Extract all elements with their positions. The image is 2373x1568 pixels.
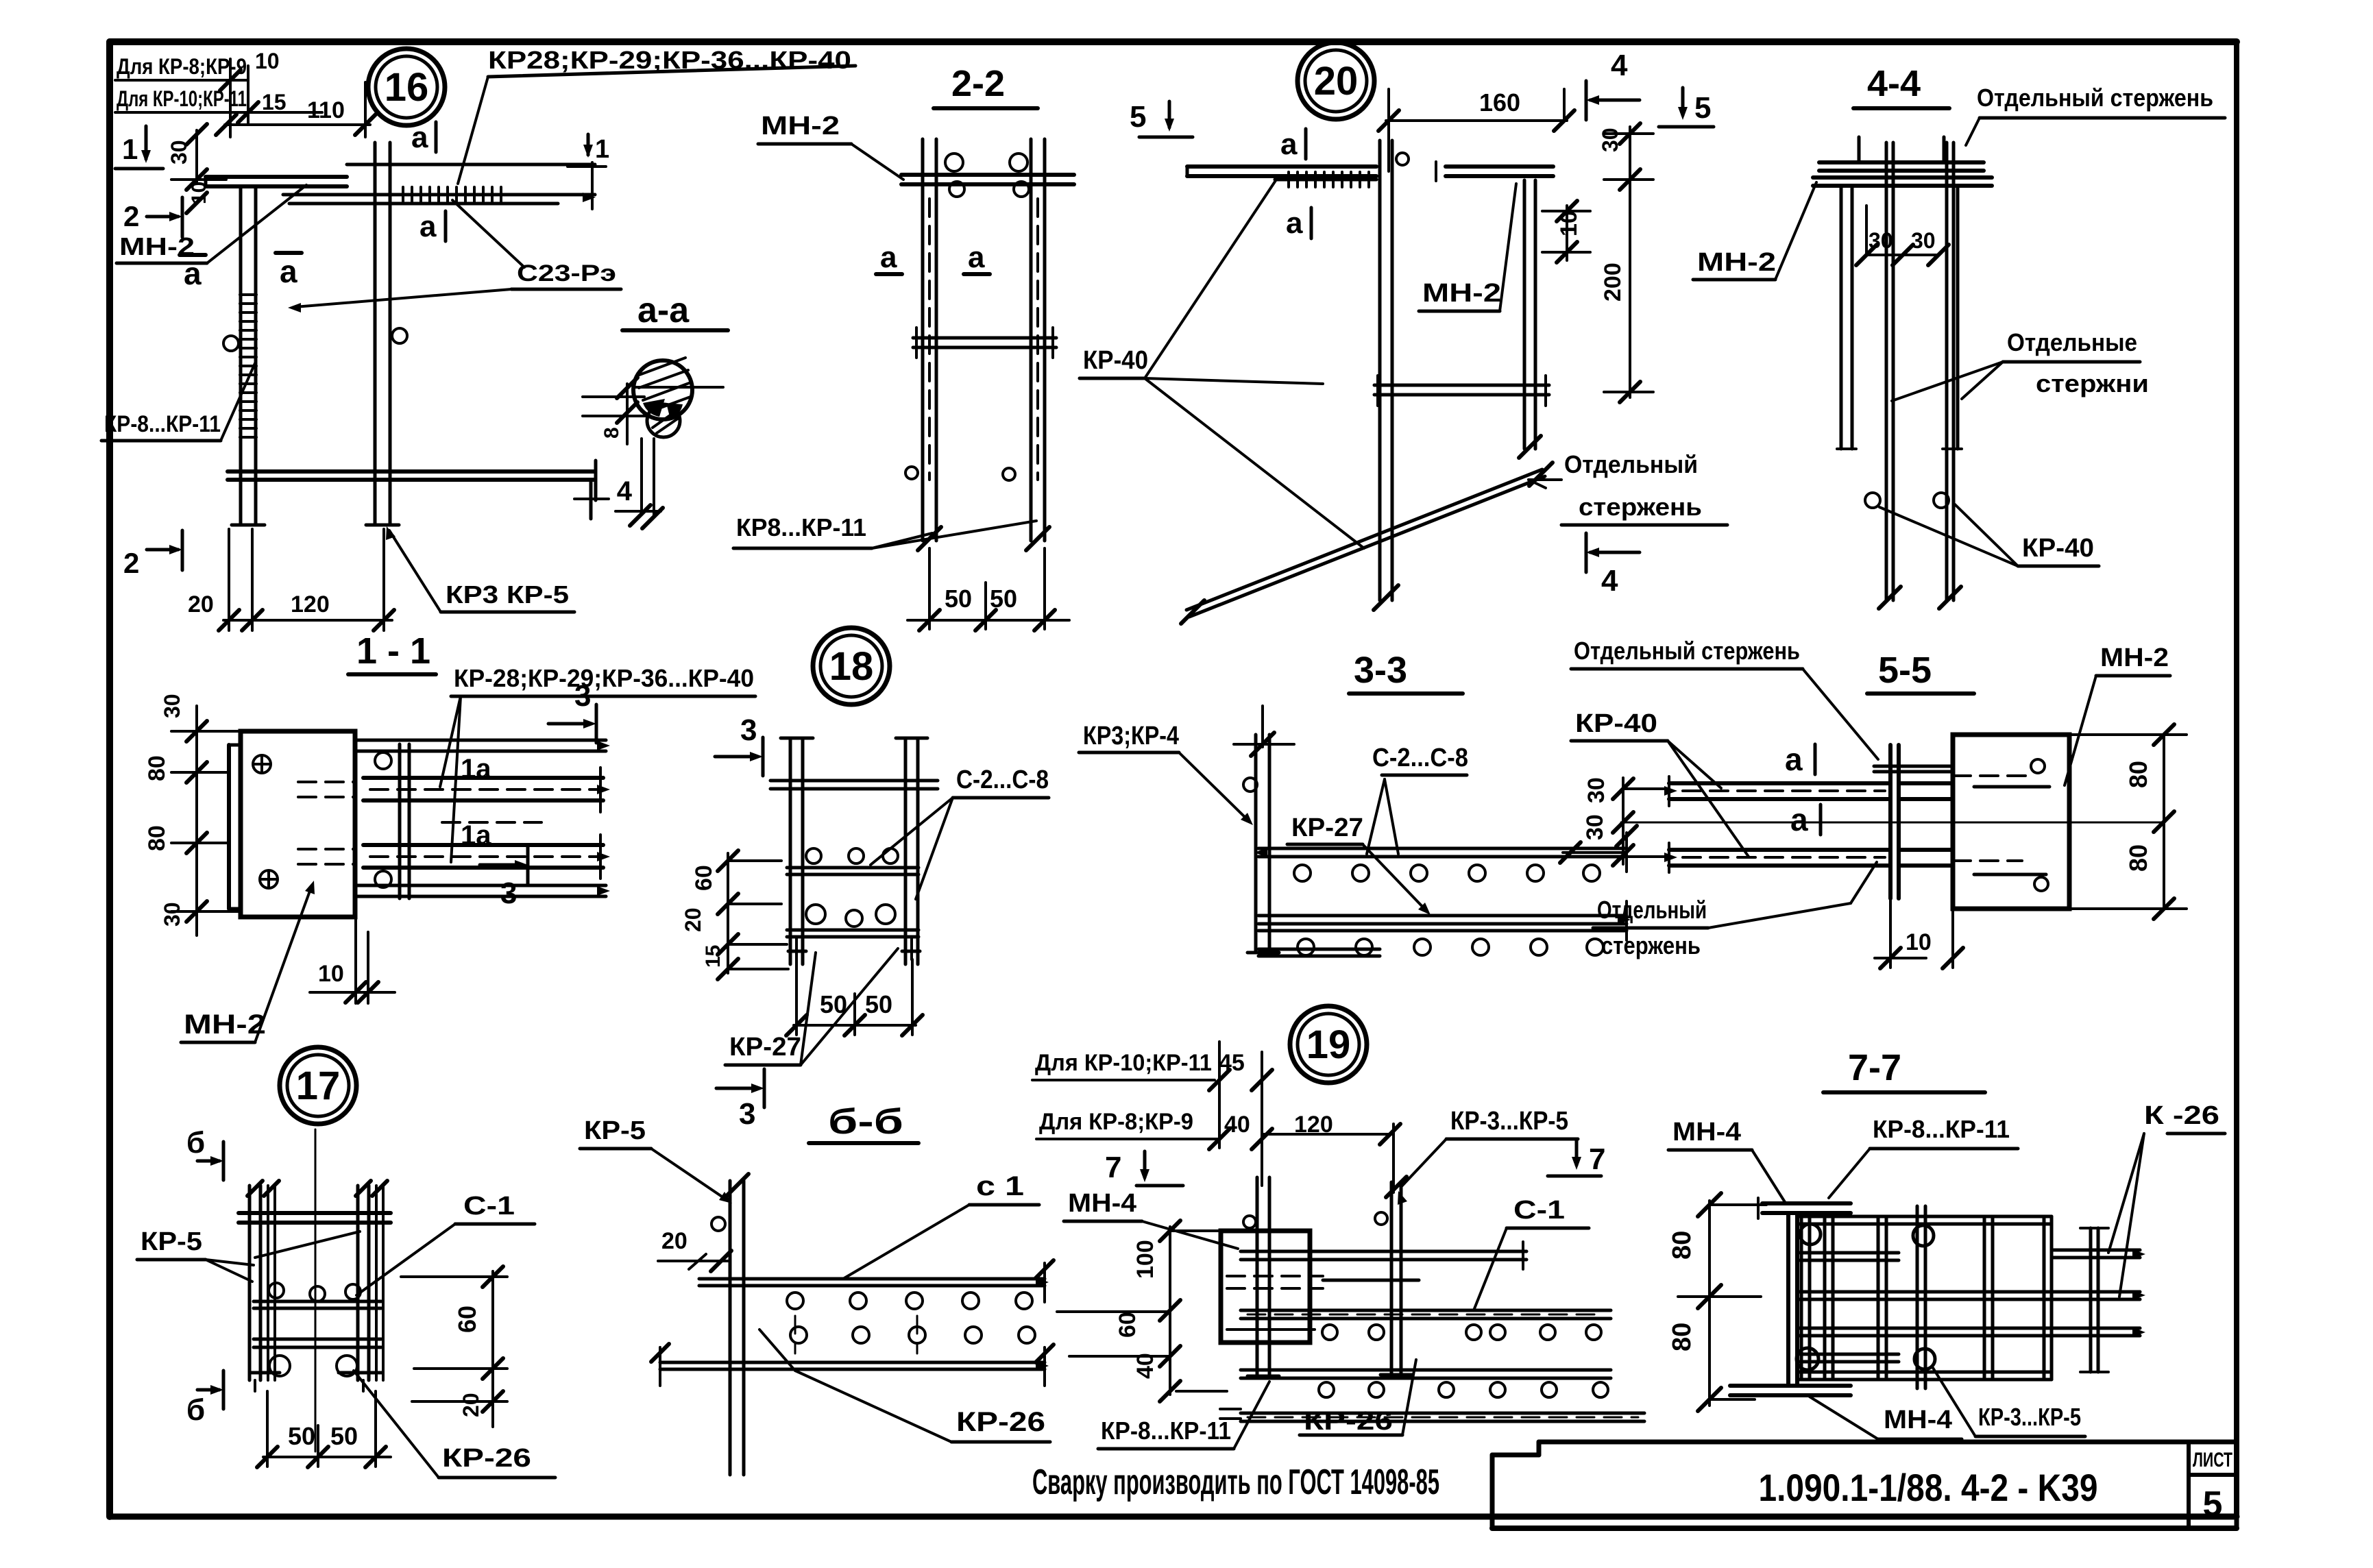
dim 30 vert — [167, 124, 207, 190]
section mark 1 right end — [568, 134, 609, 167]
svg-text:200: 200 — [1600, 262, 1626, 302]
d17 circles mid — [269, 1283, 361, 1301]
d11 dim 10 — [310, 914, 395, 1003]
d22 middle bar — [905, 328, 1056, 480]
section 2-2 title — [934, 63, 1038, 108]
d55 top stub — [1874, 766, 1953, 772]
svg-text:80: 80 — [144, 825, 170, 851]
svg-text:МН-2: МН-2 — [761, 112, 840, 140]
label dlya KR-8 KR-9 — [115, 49, 280, 80]
svg-text:30: 30 — [1911, 228, 1936, 253]
svg-text:45: 45 — [1219, 1050, 1245, 1076]
d20 right column — [1519, 180, 1541, 458]
label dlya KR-10 KR-11 — [115, 86, 287, 114]
svg-text:Для КР-8;КР-9: Для КР-8;КР-9 — [117, 54, 247, 79]
d11 plus marks — [253, 755, 278, 888]
label KR-5 d17 — [137, 1227, 254, 1282]
label KR-3 KR-5 — [386, 526, 574, 612]
dim 160 — [1378, 88, 1574, 171]
d66 left column — [711, 1174, 749, 1475]
d18 top bar — [770, 781, 938, 789]
label KR-27 d18 — [725, 948, 898, 1065]
svg-text:С-2...С-8: С-2...С-8 — [1372, 744, 1468, 772]
svg-text:20: 20 — [681, 907, 705, 932]
svg-text:Отдельные: Отдельные — [2007, 328, 2137, 356]
label C23-Re — [288, 200, 621, 313]
d77 right stirrup — [2080, 1228, 2108, 1372]
d77 dims 80 80 — [1668, 1193, 1766, 1411]
d17 dims right — [401, 1266, 507, 1427]
svg-text:30: 30 — [160, 902, 184, 927]
d66 dim 20 — [658, 1228, 731, 1271]
svg-text:5: 5 — [1694, 91, 1711, 125]
d33 mid row circles — [1298, 939, 1603, 955]
svg-text:3: 3 — [574, 679, 591, 713]
d19 plate MN-4 — [1221, 1231, 1310, 1343]
detail16 bottom bar — [228, 461, 596, 500]
d18 left column — [781, 738, 813, 964]
label KR-40 d20 — [1080, 180, 1364, 548]
section mark 4 bottom — [1586, 533, 1640, 598]
svg-text:1a: 1a — [461, 820, 491, 850]
svg-text:16: 16 — [385, 65, 429, 110]
d66 mid circles — [790, 1316, 1035, 1353]
svg-text:17: 17 — [296, 1064, 341, 1108]
svg-text:б: б — [186, 1393, 205, 1427]
d20 mid bar — [1374, 376, 1549, 406]
d55 bar row2 — [1664, 843, 1953, 872]
svg-text:60: 60 — [453, 1306, 481, 1333]
d20 diagonal rod — [1181, 463, 1553, 624]
svg-text:20: 20 — [661, 1228, 687, 1254]
svg-text:КР-3...КР-5: КР-3...КР-5 — [1450, 1107, 1568, 1136]
label KR-27 d33 — [1287, 813, 1431, 915]
label a-bar left — [180, 255, 206, 291]
d55 bar row1 — [1664, 776, 1953, 806]
d44 top plates — [1813, 162, 1992, 186]
d55 dashed anchors — [1953, 759, 2049, 891]
section mark 3 left d18 — [715, 713, 763, 776]
svg-text:КР-26: КР-26 — [442, 1444, 531, 1473]
section mark 4 left top — [1586, 49, 1640, 120]
svg-text:30: 30 — [160, 694, 184, 718]
svg-text:a: a — [419, 210, 437, 243]
label KR-28 group 1-1 — [440, 664, 755, 862]
section mark 2 bottom — [123, 530, 182, 579]
svg-text:60: 60 — [1115, 1312, 1141, 1338]
label MN-2 d20 right — [1693, 182, 1816, 280]
svg-text:100: 100 — [1132, 1240, 1158, 1279]
label C-1 d17 — [356, 1192, 535, 1295]
d19 mid bar — [1241, 1310, 1611, 1319]
label C-2 C-8 d18 — [871, 765, 1049, 899]
svg-text:С23-Рэ: С23-Рэ — [517, 260, 616, 286]
svg-text:КР-40: КР-40 — [1575, 709, 1657, 738]
d55 big plate — [1953, 735, 2069, 909]
svg-text:Отдельный: Отдельный — [1564, 450, 1698, 478]
detail16 bottom dims — [188, 529, 394, 630]
svg-text:Отдельный: Отдельный — [1597, 896, 1707, 924]
svg-text:4: 4 — [1601, 564, 1618, 598]
section mark b top — [186, 1126, 223, 1180]
svg-text:С-1: С-1 — [463, 1192, 515, 1221]
svg-text:3: 3 — [739, 1097, 755, 1131]
label C-2 C-8 d33 — [1367, 744, 1468, 854]
label C-1 d19 — [1474, 1196, 1589, 1310]
svg-text:19: 19 — [1306, 1022, 1351, 1067]
d18 bottom bar — [787, 930, 918, 937]
svg-text:160: 160 — [1479, 88, 1520, 117]
svg-text:КР-3...КР-5: КР-3...КР-5 — [1978, 1403, 2081, 1431]
label KR28 KR-29 KR-36 KR-40 — [458, 46, 855, 184]
svg-text:7-7: 7-7 — [1848, 1047, 1901, 1088]
label K-26 d77 — [2108, 1101, 2225, 1297]
svg-text:С-1: С-1 — [1513, 1196, 1565, 1225]
d18 feet — [788, 937, 920, 959]
label KR-26 d17 — [354, 1371, 555, 1478]
title block doc number — [1759, 1466, 2098, 1509]
svg-text:20: 20 — [188, 591, 214, 617]
svg-text:a: a — [968, 241, 985, 274]
section a-a title — [622, 291, 728, 330]
svg-text:4: 4 — [1611, 49, 1628, 82]
detail16 top plate — [206, 177, 347, 186]
section 7-7 title — [1823, 1047, 1985, 1092]
svg-text:КР-27: КР-27 — [729, 1033, 801, 1062]
svg-text:80: 80 — [1668, 1231, 1696, 1260]
svg-text:110: 110 — [307, 97, 345, 123]
svg-text:15: 15 — [262, 90, 287, 114]
label MN-2 d16 — [117, 185, 306, 263]
d19 right column — [1375, 1177, 1412, 1375]
label MN-2 d11 — [181, 881, 315, 1042]
d33 bottom chord — [1254, 948, 1380, 957]
d11 thick bar 2 — [363, 835, 610, 879]
svg-text:a: a — [1790, 802, 1808, 837]
section mark 3 right d11 — [548, 679, 596, 743]
svg-text:КР-28;КР-29;КР-36...КР-40: КР-28;КР-29;КР-36...КР-40 — [454, 664, 754, 692]
label KR-8 KR-11 d77 — [1829, 1115, 2018, 1198]
section 6-6 title — [809, 1102, 918, 1143]
svg-text:МН-2: МН-2 — [2100, 644, 2169, 672]
svg-text:МН-4: МН-4 — [1672, 1118, 1741, 1147]
label otdelny sterzhen 44 top — [1966, 84, 2225, 145]
label MN-2 d55 — [2065, 644, 2170, 785]
label C1 d66 — [843, 1171, 1039, 1279]
label KR-26 d66 — [759, 1330, 1050, 1442]
svg-text:стержни: стержни — [2036, 369, 2149, 397]
svg-text:Для КР-10;КР-11: Для КР-10;КР-11 — [117, 86, 247, 111]
svg-text:60: 60 — [691, 865, 717, 891]
dim 10 d20 — [1542, 201, 1590, 262]
svg-text:10: 10 — [1906, 929, 1932, 955]
d11 dims left — [144, 694, 241, 935]
svg-text:50: 50 — [945, 585, 972, 613]
svg-text:18: 18 — [829, 644, 874, 689]
d55 dim 10 — [1875, 898, 1963, 968]
svg-text:40: 40 — [1224, 1112, 1250, 1138]
label MN-2 d20 mid — [1419, 184, 1516, 311]
svg-text:50: 50 — [288, 1422, 315, 1450]
svg-text:a: a — [880, 241, 897, 274]
svg-text:МН-2: МН-2 — [184, 1009, 266, 1040]
d18 lower circles — [806, 905, 895, 927]
section 5-5 title — [1867, 650, 1974, 694]
d17 feet — [252, 1373, 382, 1391]
d18 dims left — [681, 850, 788, 979]
svg-text:30: 30 — [1582, 814, 1608, 840]
d33 left column — [1234, 706, 1294, 953]
d11 stirrup — [375, 744, 409, 898]
svg-text:10: 10 — [255, 49, 280, 73]
svg-text:80: 80 — [2124, 761, 2152, 788]
label a| lower — [419, 210, 446, 243]
svg-text:б-б: б-б — [828, 1102, 903, 1142]
svg-text:3: 3 — [500, 877, 517, 910]
d77 circles — [1797, 1224, 1935, 1370]
section mark 7 down right — [1548, 1139, 1605, 1176]
d19 bot circles — [1319, 1382, 1608, 1397]
section mark 7 down — [1105, 1151, 1183, 1186]
svg-text:КР-8...КР-11: КР-8...КР-11 — [1873, 1115, 2010, 1143]
d66 top circles — [787, 1293, 1032, 1309]
svg-text:КР-8...КР-11: КР-8...КР-11 — [104, 411, 221, 437]
d44 inner rod right — [1939, 143, 1961, 609]
svg-text:50: 50 — [865, 990, 892, 1018]
d22 labels a a — [876, 241, 990, 274]
d55 labels a| — [1785, 742, 1821, 837]
d77 bottom plate — [1730, 1386, 1851, 1395]
label KR8 KR-11 d22 — [733, 513, 1036, 548]
svg-text:1 - 1: 1 - 1 — [356, 630, 430, 672]
d19 left column — [1243, 1177, 1279, 1376]
svg-text:10: 10 — [318, 961, 344, 987]
d17 left columns — [247, 1181, 279, 1380]
svg-text:a: a — [184, 256, 202, 291]
svg-text:80: 80 — [1668, 1323, 1696, 1351]
dim 10 vert — [171, 180, 226, 213]
svg-text:2: 2 — [123, 547, 139, 579]
d77 top plate — [1758, 1198, 1851, 1218]
svg-text:3-3: 3-3 — [1354, 650, 1407, 691]
dim ext lines 10 15 — [220, 59, 322, 137]
svg-text:30: 30 — [1583, 777, 1609, 803]
d20 labels a| — [1280, 127, 1311, 240]
detail 17 bubble — [280, 1047, 356, 1124]
d44 inner rod left — [1879, 143, 1901, 609]
label KR-26 d19 — [1300, 1360, 1416, 1436]
label a-bar right — [276, 253, 302, 289]
d20 center column — [1374, 140, 1409, 610]
d20 top plate right — [1436, 162, 1553, 181]
label KR-40 d55 — [1571, 709, 1749, 857]
d18 dim 50 50 — [786, 959, 923, 1036]
label a| upper — [411, 121, 436, 154]
label KR-3 KR-5 d77 — [1933, 1368, 2085, 1436]
svg-text:КР-26: КР-26 — [1304, 1407, 1393, 1436]
d22 hook circles — [945, 154, 1029, 197]
svg-text:МН-4: МН-4 — [1068, 1189, 1136, 1218]
label MN-4 d19 — [1064, 1189, 1238, 1249]
svg-text:КР-5: КР-5 — [141, 1227, 202, 1256]
title block sheet number 5 — [2203, 1484, 2223, 1524]
svg-text:7: 7 — [1589, 1142, 1605, 1176]
d17 axis line — [315, 1129, 317, 1451]
d55 thin plate — [1890, 745, 1899, 898]
svg-text:Для КР-10;КР-11: Для КР-10;КР-11 — [1035, 1050, 1212, 1076]
label KR-3 KR-5 d19 — [1398, 1107, 1578, 1205]
d77 row1 ext — [2052, 1249, 2145, 1259]
d22 top plate — [901, 175, 1074, 184]
d77 left plate — [1788, 1214, 1797, 1384]
svg-text:4: 4 — [617, 476, 633, 506]
section 1-1 title — [348, 630, 436, 674]
d17 lower bar — [254, 1339, 381, 1347]
a-a left leaders — [583, 378, 650, 444]
svg-text:a-a: a-a — [637, 291, 690, 330]
svg-text:КР-8...КР-11: КР-8...КР-11 — [1101, 1417, 1231, 1445]
svg-text:4-4: 4-4 — [1867, 63, 1921, 104]
svg-text:КР-40: КР-40 — [1083, 346, 1148, 375]
label MN-2 d22 — [758, 112, 903, 180]
a-a weld circle big — [633, 358, 723, 419]
svg-text:стержень: стержень — [1601, 931, 1701, 959]
svg-text:МН-2: МН-2 — [1422, 279, 1501, 308]
svg-text:2-2: 2-2 — [951, 63, 1005, 104]
svg-text:с 1: с 1 — [976, 1171, 1024, 1201]
d19 mid circles — [1322, 1325, 1601, 1340]
section 4-4 title — [1853, 63, 1949, 108]
label KR-5 d66 — [580, 1116, 732, 1203]
d55 dims 80 80 — [2069, 724, 2187, 919]
svg-text:КР-27: КР-27 — [1291, 813, 1363, 842]
d33 mid row — [1258, 901, 1631, 940]
d44 stub bars top — [1859, 137, 1944, 162]
d18 right column — [896, 738, 927, 964]
d17 top plate — [239, 1213, 391, 1223]
svg-text:a: a — [1785, 742, 1803, 777]
svg-text:2: 2 — [123, 200, 139, 232]
d19 anchor dashes — [1227, 1276, 1419, 1330]
svg-text:1.090.1-1/88. 4-2 - K39: 1.090.1-1/88. 4-2 - K39 — [1759, 1466, 2098, 1509]
d19 lowest bar — [1220, 1409, 1644, 1421]
d20 top plate left — [1187, 167, 1376, 187]
svg-text:1a: 1a — [461, 754, 491, 784]
svg-text:1: 1 — [595, 135, 609, 164]
d77 chords — [1797, 1216, 2052, 1380]
a-a weld circle small — [643, 399, 683, 437]
d17 inner diagonal — [255, 1232, 360, 1258]
svg-text:КР3 КР-5: КР3 КР-5 — [446, 580, 569, 609]
d17 mid bar — [254, 1301, 381, 1308]
label otdelny sterzhen d20 — [1529, 450, 1727, 525]
section mark 2 right — [123, 197, 182, 237]
detail 16 bubble — [368, 49, 445, 125]
svg-text:МН-2: МН-2 — [1697, 248, 1776, 277]
svg-text:80: 80 — [144, 755, 170, 781]
detail16 right column — [366, 143, 407, 525]
label MN-4 d77 top — [1668, 1118, 1785, 1202]
svg-text:Отдельный стержень: Отдельный стержень — [1574, 637, 1800, 665]
dim 30 200 d20 — [1598, 123, 1653, 402]
section 3-3 title — [1349, 650, 1463, 694]
svg-text:КР-26: КР-26 — [956, 1407, 1045, 1437]
svg-text:50: 50 — [330, 1422, 358, 1450]
d77 inner rods — [1800, 1253, 1899, 1362]
svg-text:a: a — [411, 121, 428, 154]
detail16 left column — [223, 186, 265, 525]
d19 dim ext lines — [1209, 1042, 1400, 1192]
svg-text:10: 10 — [1556, 210, 1582, 236]
svg-text:120: 120 — [291, 591, 330, 617]
welding note — [1032, 1462, 1439, 1502]
d19 bot bar — [1241, 1370, 1611, 1378]
a-a weld size marks — [574, 439, 663, 528]
section mark 1 down — [115, 126, 163, 169]
section mark 5 down — [1130, 100, 1193, 137]
d44 right pair — [1943, 186, 1962, 449]
label KR-3 KR-4 — [1079, 722, 1253, 825]
svg-text:5: 5 — [1130, 100, 1146, 134]
d11 plate MN-2 — [229, 731, 355, 917]
dim 110 — [216, 82, 376, 137]
d19 top bar — [1241, 1242, 1526, 1269]
svg-text:20: 20 — [459, 1393, 483, 1417]
svg-text:30: 30 — [1598, 127, 1622, 152]
title block box — [1492, 1442, 2237, 1528]
label KR-40 d44 — [1879, 504, 2099, 566]
detail 20 bubble — [1298, 42, 1374, 119]
d44 dim 30 30 — [1856, 206, 1949, 265]
svg-text:КР3;КР-4: КР3;КР-4 — [1083, 722, 1179, 750]
label otdelny sterzhen 55 top — [1571, 637, 1878, 759]
label MN-4 d77 bottom — [1810, 1397, 1962, 1439]
label otdelnye sterzhni — [1892, 328, 2149, 401]
d17 dim 50 50 — [257, 1391, 391, 1467]
d11 dashed anchors — [298, 782, 541, 864]
svg-text:К -26: К -26 — [2144, 1101, 2219, 1130]
svg-text:ЛИСТ: ЛИСТ — [2193, 1449, 2232, 1471]
section mark 3 bottom d18 — [716, 1069, 764, 1131]
svg-text:7: 7 — [1105, 1151, 1121, 1184]
svg-text:МН-4: МН-4 — [1884, 1406, 1952, 1434]
d22 bottom dim 50 50 — [908, 548, 1069, 630]
d17 right columns — [356, 1181, 387, 1380]
d55 dims 30 30 — [1582, 777, 2164, 866]
label KR-8 KR-11 d19 — [1098, 1382, 1269, 1449]
d33 top row — [1254, 826, 1637, 872]
d17 bottom circles — [269, 1356, 357, 1376]
d77 mid chords — [1797, 1290, 2145, 1337]
d11 bottom bar pair — [355, 885, 610, 896]
svg-text:КР-40: КР-40 — [2022, 534, 2094, 563]
svg-text:С-2...С-8: С-2...С-8 — [956, 765, 1049, 794]
d44 left pair — [1837, 186, 1856, 449]
detail 18 bubble — [813, 628, 890, 705]
d11 top bar pair — [355, 740, 610, 751]
d44 circles — [1865, 493, 1949, 508]
svg-text:КР8...КР-11: КР8...КР-11 — [736, 513, 866, 541]
svg-text:50: 50 — [990, 585, 1017, 613]
label dlya KR-8 KR-9 d19 — [1036, 1109, 1333, 1139]
d22 left column — [918, 139, 941, 550]
d66 top bar — [699, 1260, 1054, 1302]
d11 thick bar 1 — [363, 768, 610, 812]
svg-text:Для КР-8;КР-9: Для КР-8;КР-9 — [1039, 1109, 1193, 1135]
d19 dims left — [1057, 1221, 1227, 1401]
svg-text:стержень: стержень — [1579, 493, 1702, 521]
d11 labels 1a — [461, 754, 491, 850]
